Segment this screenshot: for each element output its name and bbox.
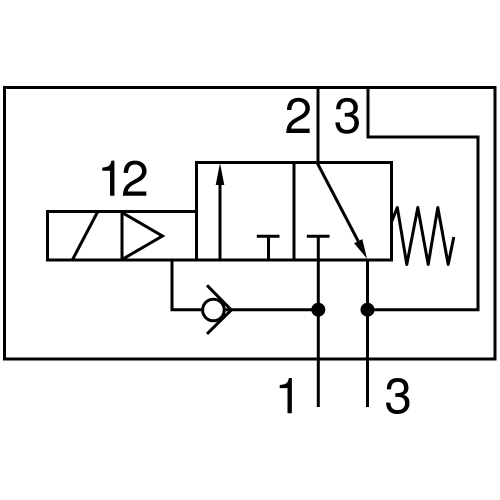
label 1 bottom — [280, 378, 292, 413]
valve position divider — [293, 163, 296, 261]
solenoid coil divider — [121, 212, 124, 261]
blocked port T (right position) — [307, 235, 330, 238]
solenoid coil diagonal — [72, 212, 98, 261]
outer enclosure border — [5, 88, 496, 360]
node junction 1 — [311, 303, 325, 317]
wire port 3 vertical — [366, 260, 369, 407]
label 3 top — [335, 98, 359, 134]
flow arrow up (left position) — [219, 180, 222, 260]
label 12 — [102, 161, 114, 196]
flow arrow diagonal 2 to 3 (right position) — [317, 163, 358, 242]
pilot wire from solenoid — [172, 259, 205, 310]
wire port 3 loop right side — [368, 88, 479, 310]
node junction 3 — [361, 303, 375, 317]
label 2 — [286, 98, 310, 133]
check valve seat — [207, 285, 231, 334]
return spring — [392, 208, 454, 265]
solenoid box — [48, 212, 197, 261]
wire check valve to node 1 — [222, 308, 318, 311]
pilot amplifier triangle — [122, 213, 162, 260]
wire port 2 to valve top — [317, 88, 320, 163]
label 3 bottom — [386, 378, 410, 414]
check valve ball — [203, 299, 225, 321]
valve body U1 — [197, 163, 392, 261]
wire port 1 vertical — [317, 260, 320, 407]
blocked port T (left position) — [257, 235, 280, 238]
